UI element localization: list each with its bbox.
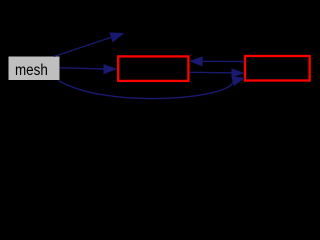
svg-text:mesh: mesh [15,62,48,79]
